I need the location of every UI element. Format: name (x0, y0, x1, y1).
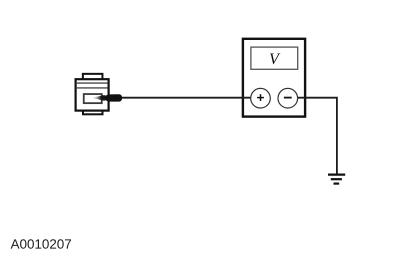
figure label A0010207 (11, 239, 71, 248)
connector body (76, 79, 109, 110)
connector inner line 2 (77, 87, 109, 89)
voltmeter U1 (243, 39, 305, 117)
connector top tab (83, 74, 103, 80)
terminal slot (84, 94, 102, 103)
probe needle (92, 95, 105, 101)
minus terminal (278, 88, 298, 108)
probe body (103, 94, 122, 101)
voltmeter display window (251, 47, 298, 69)
voltmeter V label (270, 53, 280, 64)
ground (328, 174, 345, 176)
connector inner line 1 (77, 82, 109, 84)
connector bottom tab (83, 110, 103, 114)
wire from voltmeter minus terminal to ground drop (287, 98, 337, 174)
plus terminal (251, 88, 271, 108)
wire from probe to voltmeter plus terminal (121, 97, 262, 99)
